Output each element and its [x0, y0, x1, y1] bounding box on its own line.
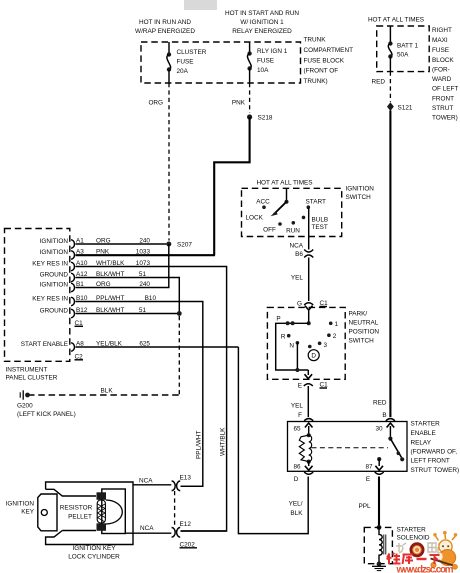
svg-text:WARD: WARD	[432, 76, 452, 83]
svg-text:INSTRUMENT: INSTRUMENT	[6, 367, 48, 374]
svg-text:(FORWARD OF,: (FORWARD OF,	[411, 449, 458, 456]
svg-text:E: E	[298, 383, 302, 390]
svg-text:IGNITION: IGNITION	[346, 186, 375, 193]
svg-text:E13: E13	[180, 475, 192, 482]
svg-text:RLY IGN 1: RLY IGN 1	[257, 48, 288, 55]
svg-text:ACC: ACC	[256, 199, 270, 206]
svg-text:KEY: KEY	[21, 509, 35, 516]
svg-text:RED: RED	[372, 79, 386, 86]
svg-text:BATT 1: BATT 1	[397, 43, 419, 50]
svg-text:NCA: NCA	[290, 243, 304, 250]
svg-text:G200: G200	[17, 403, 33, 410]
svg-text:IGNITION: IGNITION	[40, 238, 69, 245]
svg-text:RELAY: RELAY	[411, 439, 432, 446]
svg-text:86: 86	[294, 464, 302, 471]
svg-text:P: P	[276, 316, 280, 323]
svg-text:HOT AT ALL TIMES: HOT AT ALL TIMES	[368, 17, 424, 24]
svg-text:PNK: PNK	[232, 100, 246, 107]
svg-text:20A: 20A	[177, 68, 189, 75]
svg-text:COMPARTMENT: COMPARTMENT	[304, 47, 354, 54]
svg-text:SWITCH: SWITCH	[349, 338, 375, 345]
svg-text:30: 30	[376, 426, 384, 433]
svg-text:BULB: BULB	[312, 217, 329, 224]
svg-text:G: G	[297, 301, 302, 308]
svg-text:SWITCH: SWITCH	[346, 194, 372, 201]
svg-text:(FOR-: (FOR-	[432, 67, 450, 74]
svg-text:YEL/: YEL/	[289, 501, 303, 508]
svg-text:RIGHT: RIGHT	[432, 27, 452, 34]
svg-text:S121: S121	[398, 105, 413, 112]
svg-text:STRUT TOWER): STRUT TOWER)	[411, 467, 460, 474]
svg-text:RELAY ENERGIZED: RELAY ENERGIZED	[232, 28, 292, 35]
svg-text:FUSE BLOCK: FUSE BLOCK	[304, 58, 345, 65]
svg-text:STARTER: STARTER	[411, 421, 441, 428]
svg-text:1: 1	[335, 321, 339, 328]
svg-text:LEFT FRONT: LEFT FRONT	[411, 458, 450, 465]
svg-text:RED: RED	[373, 400, 387, 407]
svg-text:PPL/WHT: PPL/WHT	[196, 430, 203, 459]
svg-text:YEL: YEL	[291, 403, 304, 410]
svg-text:GROUND: GROUND	[40, 272, 69, 279]
svg-text:W/ IGNITION 1: W/ IGNITION 1	[240, 19, 284, 26]
svg-text:E: E	[366, 476, 370, 483]
svg-text:WHT/BLK: WHT/BLK	[219, 427, 226, 456]
svg-text:IGNITION KEY: IGNITION KEY	[73, 545, 117, 552]
svg-text:10A: 10A	[257, 67, 269, 74]
svg-text:LOCK CYLINDER: LOCK CYLINDER	[68, 554, 120, 561]
svg-text:ORG: ORG	[148, 100, 163, 107]
svg-text:65: 65	[294, 426, 302, 433]
svg-text:FUSE: FUSE	[257, 58, 274, 65]
svg-text:2: 2	[333, 333, 337, 340]
svg-text:HOT IN RUN AND: HOT IN RUN AND	[139, 19, 191, 26]
svg-text:OF LEFT: OF LEFT	[432, 86, 458, 93]
svg-text:START: START	[306, 199, 326, 206]
svg-text:LOCK: LOCK	[246, 215, 264, 222]
svg-text:50A: 50A	[397, 52, 409, 59]
svg-text:PELLET: PELLET	[68, 514, 92, 521]
svg-text:PANEL CLUSTER: PANEL CLUSTER	[6, 375, 58, 382]
svg-text:STRUT: STRUT	[432, 105, 453, 112]
svg-text:OFF: OFF	[263, 227, 276, 234]
svg-text:S207: S207	[177, 242, 192, 249]
svg-text:R: R	[281, 334, 286, 341]
svg-text:BLK: BLK	[101, 388, 114, 395]
svg-text:(FRONT OF: (FRONT OF	[304, 68, 339, 75]
svg-text:ENABLE: ENABLE	[411, 430, 436, 437]
svg-text:D: D	[294, 476, 299, 483]
svg-text:RESISTOR: RESISTOR	[60, 505, 93, 512]
svg-text:BLOCK: BLOCK	[432, 57, 454, 64]
svg-text:F: F	[298, 412, 302, 419]
svg-text:TRUNK): TRUNK)	[304, 78, 328, 85]
svg-text:TEST: TEST	[312, 224, 328, 231]
svg-text:NCA: NCA	[140, 525, 154, 532]
svg-text:IGNITION: IGNITION	[6, 501, 35, 508]
svg-text:POSITION: POSITION	[349, 329, 380, 336]
svg-text:START ENABLE: START ENABLE	[21, 341, 68, 348]
svg-text:MAXI: MAXI	[432, 37, 448, 44]
svg-text:D: D	[311, 353, 316, 360]
svg-text:3: 3	[324, 342, 328, 349]
svg-text:HOT IN START AND RUN: HOT IN START AND RUN	[225, 10, 299, 17]
svg-text:N: N	[289, 343, 294, 350]
svg-text:B: B	[382, 412, 386, 419]
svg-text:FUSE: FUSE	[177, 59, 194, 66]
svg-text:HOT AT ALL TIMES: HOT AT ALL TIMES	[256, 180, 312, 187]
svg-text:(LEFT KICK PANEL): (LEFT KICK PANEL)	[17, 411, 76, 418]
svg-text:STARTER: STARTER	[397, 527, 427, 534]
svg-text:BLK: BLK	[290, 510, 303, 517]
svg-text:PPL: PPL	[359, 503, 372, 510]
svg-text:SOLENOID: SOLENOID	[397, 535, 430, 542]
svg-text:GROUND: GROUND	[40, 308, 69, 315]
svg-text:KEY RES IN: KEY RES IN	[32, 296, 68, 303]
svg-text:FRONT: FRONT	[432, 96, 454, 103]
svg-text:TOWER): TOWER)	[432, 115, 458, 122]
svg-text:NEUTRAL: NEUTRAL	[349, 320, 379, 327]
svg-text:FUSE: FUSE	[432, 47, 449, 54]
svg-text:KEY RES IN: KEY RES IN	[32, 261, 68, 268]
svg-text:YEL: YEL	[291, 275, 304, 282]
svg-text:CLUSTER: CLUSTER	[177, 49, 207, 56]
svg-text:S218: S218	[258, 115, 273, 122]
svg-text:IGNITION: IGNITION	[40, 249, 69, 256]
svg-text:RUN: RUN	[286, 228, 300, 235]
svg-text:E12: E12	[180, 521, 192, 528]
svg-text:TRUNK: TRUNK	[304, 37, 327, 44]
svg-text:B6: B6	[295, 251, 303, 258]
svg-text:87: 87	[366, 464, 374, 471]
svg-text:NCA: NCA	[139, 478, 153, 485]
svg-text:PARK/: PARK/	[349, 311, 368, 318]
svg-text:www.dzsc.com: www.dzsc.com	[396, 565, 454, 573]
svg-text:W/RAP ENERGIZED: W/RAP ENERGIZED	[135, 28, 195, 35]
svg-text:IGNITION: IGNITION	[40, 282, 69, 289]
